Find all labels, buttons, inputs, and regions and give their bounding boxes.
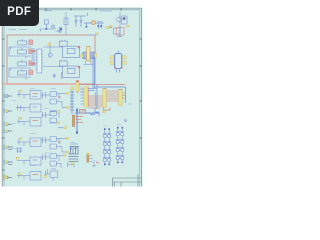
inductor filter L3 row3 xyxy=(9,60,31,71)
PDF badge overlay xyxy=(0,0,39,26)
transistor pair Q11 chain2 cell4 xyxy=(116,152,124,162)
wire cluster bottom center xyxy=(68,163,75,168)
ferrite bead FB1 orange ring xyxy=(92,21,96,25)
junction dots chain1 xyxy=(104,128,110,165)
node terminal yellow net A2a xyxy=(51,111,60,113)
frame grid tick marks left edge xyxy=(2,39,5,170)
filter stage FL5 row xyxy=(16,157,41,165)
connector J9 tall yellow header xyxy=(81,87,89,108)
filter stage FL2 row xyxy=(16,104,41,112)
wire ribbon diagonals from J8 xyxy=(79,86,89,98)
relay K3 blue body with crystal X1 cream bar xyxy=(81,46,97,64)
capacitor pair C8 between rows xyxy=(16,148,22,154)
filter stage FL6 row xyxy=(17,172,41,181)
filter stage FL4 row xyxy=(17,138,41,147)
polarized capacitor C4 tan body xyxy=(87,153,93,163)
capacitor pair C1 C2 xyxy=(74,13,88,28)
transistor pair Q5 chain1 cell2 xyxy=(103,138,111,146)
wire stub bottom right of chains xyxy=(92,160,96,166)
ground symbol small right xyxy=(124,120,127,121)
junction dot C7 xyxy=(100,25,102,27)
junction dots on vertical bus xyxy=(76,110,78,134)
label text at red box top right xyxy=(88,34,97,36)
op-amp stage A3 xyxy=(41,137,69,154)
net stub red on ribbon lower xyxy=(31,63,36,65)
junction dot cluster A xyxy=(45,28,47,30)
op-amp stage A4 xyxy=(41,154,66,168)
wire loop blue around header area xyxy=(95,85,126,109)
resistor R6 red block on bus xyxy=(80,110,86,114)
bus ribbon periwinkle vertical xyxy=(32,48,35,67)
capacitor C6 hanging xyxy=(97,22,99,29)
frame grid tick marks right edge xyxy=(140,39,143,138)
relay coil K2 top box loop B xyxy=(59,60,67,66)
connector J7 left edge xyxy=(4,175,12,181)
transistor pair Q9 chain2 cell2 xyxy=(116,136,124,144)
capacitor C5 hanging left xyxy=(85,23,87,28)
junction node loop A red xyxy=(78,47,80,49)
inductor filter L2 row2 xyxy=(9,47,31,59)
node terminal yellow below J10 xyxy=(102,111,105,113)
node terminal yellow near box edge xyxy=(96,33,99,35)
connector J5 left edge xyxy=(4,145,13,151)
wire red ribbon harness left group xyxy=(89,92,103,108)
transformer T2 red body row2 xyxy=(29,49,33,53)
relay coil K1 top box loop A xyxy=(59,40,67,46)
node terminal yellow net A2c xyxy=(58,127,67,129)
inductor filter L1 row1 xyxy=(9,39,31,50)
connector J3 left edge xyxy=(4,122,12,127)
connector J2 left edge xyxy=(4,109,12,114)
junction dots TB1 top xyxy=(70,148,76,150)
relay coil K1 inner box loop A xyxy=(67,48,75,53)
resistor R1 vertical on net xyxy=(64,12,68,35)
wire red return below J10 xyxy=(104,108,111,111)
node terminals yellow on Q1 xyxy=(110,25,113,27)
wire loop rectangle net A xyxy=(63,46,80,58)
inductor filter L4 row4 xyxy=(9,68,31,80)
red function-block box upper left xyxy=(7,35,95,84)
pink highlighted bus net along y84 xyxy=(3,83,77,85)
IC U1 vertical dip package xyxy=(36,49,44,73)
connector J11 yellow header right xyxy=(119,90,123,106)
junction dots chain2 xyxy=(117,127,123,163)
transistor pair Q7 chain1 cell4 xyxy=(103,154,111,164)
op-amp stage A2 xyxy=(41,111,59,124)
resistor R5 red body in Q1 circuit xyxy=(117,28,125,36)
wire loop rectangle net B xyxy=(63,66,80,78)
sheet border frame inner line xyxy=(4,10,140,187)
net stub red on ribbon upper xyxy=(31,50,36,52)
wire thick blue bus segment xyxy=(75,108,99,134)
net label red bottom xyxy=(96,162,99,164)
connector J1 left edge xyxy=(4,94,12,99)
node terminal yellow with wire right xyxy=(106,27,112,29)
connector J4 left edge xyxy=(4,129,12,134)
sheet border frame outer line xyxy=(2,8,141,186)
relay coil K2 inner box loop B xyxy=(67,68,75,73)
diode D3 tan body xyxy=(72,115,74,127)
frame grid tick marks top edge xyxy=(46,8,121,11)
wire stub below loop B xyxy=(61,72,63,79)
filter stage FL3 row xyxy=(17,117,41,126)
wire cluster above TB1 riser xyxy=(71,143,79,145)
transistor pair Q3 Q4 chain1 cell1 xyxy=(103,129,111,138)
wire red ribbon harness middle group xyxy=(106,91,118,101)
junction dot C5 xyxy=(86,26,88,28)
label text left of stub xyxy=(56,31,60,33)
IC U2 with yellow pads both sides xyxy=(110,51,126,73)
transistor pair Q6 chain1 cell3 xyxy=(103,146,111,154)
wire stub with junction above red box xyxy=(60,27,62,34)
capacitor C7 hanging xyxy=(100,22,102,29)
transistor pair Q8 chain2 cell1 xyxy=(116,128,124,136)
label text right of J11 xyxy=(128,103,132,105)
wire blue pair right of J9 xyxy=(88,89,97,91)
junction dot C6 xyxy=(98,25,100,27)
node terminal yellow atop RN2 xyxy=(71,87,74,91)
terminal block TB1 xyxy=(69,146,80,161)
wire long vertical bus to center xyxy=(93,54,95,88)
node VDD yellow terminal xyxy=(48,44,51,46)
diode network D1 D2 top strip xyxy=(40,20,62,33)
wire power net horizontal xyxy=(84,22,104,24)
transformer T4 red body row4 xyxy=(29,70,33,74)
resistor ladder RN2 periwinkle column xyxy=(70,90,74,114)
wire feed from U1 to loops xyxy=(43,42,62,67)
transformer T1 red body row1 xyxy=(29,40,33,44)
wire red stubs right of J11 xyxy=(122,93,126,98)
transistor Q1 circuit top right xyxy=(114,12,128,37)
reference designator texts scattered xyxy=(12,65,121,166)
connector J6 left edge xyxy=(4,160,13,166)
red net wire continuing right of connector xyxy=(79,84,125,86)
connector J8 vertical yellow on pink bus xyxy=(76,81,79,94)
wire blue steps down left of J10 xyxy=(90,108,99,117)
node terminal yellow bottom center xyxy=(71,162,74,164)
op-amp stage A1 xyxy=(41,92,69,109)
transistor Q2 xyxy=(48,53,52,57)
capacitor C3 below loops xyxy=(53,74,57,79)
junction node loop B red xyxy=(78,66,80,68)
transistor pair Q10 chain2 cell3 xyxy=(116,144,124,152)
title block table bottom right xyxy=(113,174,142,187)
filter stage FL1 row xyxy=(17,90,41,99)
connector J10 yellow header center xyxy=(103,89,107,108)
node terminal yellow net A2b xyxy=(51,122,60,124)
schematic sheet background xyxy=(2,8,143,187)
net label text above red box xyxy=(9,11,112,30)
transformer T3 red body row3 xyxy=(29,61,33,65)
filter stage FL7 bottom center xyxy=(44,169,58,181)
wire red stubs from D3 xyxy=(76,117,84,123)
